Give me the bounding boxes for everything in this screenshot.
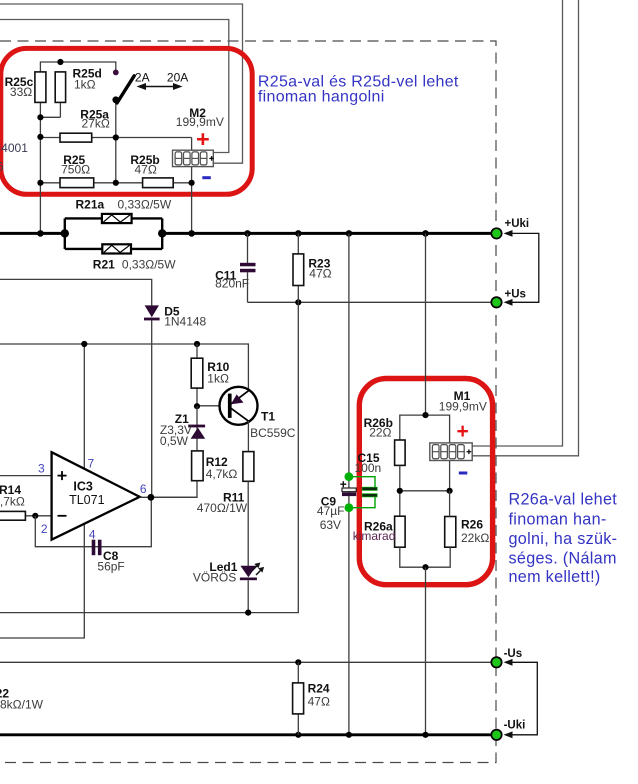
resistor R12 [192, 451, 204, 481]
svg-text:820nF: 820nF [215, 276, 249, 290]
svg-text:2: 2 [41, 522, 48, 536]
svg-text:0,33Ω/5W: 0,33Ω/5W [122, 257, 176, 271]
wire +Uki bus left segment [0, 232, 65, 235]
resistor R26 [445, 517, 456, 548]
wire C9 between terminals [348, 477, 350, 508]
terminal -Us/-Uki bracket with arrows [504, 659, 538, 738]
wire R21 frame right vertical [161, 218, 163, 249]
svg-text:47µF: 47µF [317, 504, 345, 518]
wire M1 display bottom terminal [449, 461, 451, 491]
wire mid node row [400, 490, 450, 492]
capacitor C9 47uF electrolytic [342, 488, 356, 496]
svg-text:47Ω: 47Ω [309, 267, 331, 281]
wire Led1 cathode to feedback line [247, 580, 249, 612]
node bus-left rail junction [37, 230, 44, 237]
svg-text:BC559C: BC559C [250, 426, 296, 440]
resistor R10 [191, 358, 203, 388]
wire T1 base wire [197, 405, 228, 407]
svg-text:470Ω/1W: 470Ω/1W [197, 501, 248, 515]
switch open contact (purple) [113, 70, 119, 76]
svg-text:IC3: IC3 [73, 479, 93, 493]
node -Us R24 junction [295, 659, 301, 665]
wire R26b bottom to mid node [399, 465, 401, 516]
svg-text:+: + [457, 420, 469, 443]
svg-text:1kΩ: 1kΩ [74, 77, 96, 91]
resistor R25 [60, 178, 94, 188]
svg-text:1kΩ: 1kΩ [207, 372, 229, 386]
svg-text:100n: 100n [355, 461, 382, 475]
wire op-amp pin7 supply [83, 344, 85, 470]
node pin2-feedback junction [32, 513, 38, 519]
wire M1 sense to top edge inner [472, 0, 562, 446]
red annotation box around R26 network and M1 [359, 379, 492, 585]
svg-text:22Ω: 22Ω [369, 425, 391, 439]
node rail-R25 junction [37, 180, 43, 186]
resistor R11 [243, 452, 254, 482]
wire pin6 output [140, 496, 197, 498]
wire M1 sense to top edge outer [472, 0, 578, 456]
wire R12 bottom lead to output [151, 451, 197, 497]
svg-text:VÖRÖS: VÖRÖS [193, 571, 236, 585]
power resistor R21 [102, 244, 131, 253]
svg-text:séges. (Nálam: séges. (Nálam [509, 549, 617, 567]
svg-text:2A: 2A [135, 70, 150, 84]
capacitor C15 100n (green) [349, 477, 377, 508]
wire R21 bottom path [65, 248, 162, 250]
svg-text:-Uki: -Uki [504, 719, 526, 731]
wire +Us net down to LED line [0, 302, 298, 612]
op-amp plus input mark [58, 471, 67, 480]
node M1 bottom junction [422, 564, 428, 570]
C9 polarity plus mark [340, 481, 346, 487]
zener diode Z1 [188, 425, 205, 439]
wire V+ line to T1 emitter [0, 344, 248, 391]
svg-text:0,5W: 0,5W [160, 434, 189, 448]
svg-text:R21a: R21a [76, 197, 105, 211]
svg-text:R26: R26 [461, 517, 483, 531]
node R26b-R26a junction [397, 488, 403, 494]
resistor R25c [35, 72, 46, 103]
svg-text:1N4148: 1N4148 [164, 315, 206, 329]
terminal +Uki bracket with arrows [504, 230, 539, 306]
wire pin3 from left edge [0, 475, 52, 477]
wire -Uki rail [0, 733, 497, 736]
terminal +Us (green) [491, 297, 501, 307]
range arrow between 2A and 20A [144, 86, 175, 88]
node R25-R25b junction [113, 180, 119, 186]
wire D5 anode from left edge [0, 279, 152, 305]
wire R21 frame left vertical [64, 218, 66, 249]
svg-text:nem kellett!): nem kellett!) [509, 568, 601, 586]
M2 minus terminal mark (blue) [202, 176, 211, 179]
svg-text:56pF: 56pF [97, 559, 124, 573]
svg-text:47Ω: 47Ω [135, 162, 157, 176]
wire R25d bottom lead [59, 102, 61, 117]
resistor R25b [143, 178, 174, 188]
wire R10 leads [196, 344, 198, 406]
svg-text:3: 3 [38, 462, 45, 476]
wire M2 display top terminal [191, 138, 193, 151]
node bus-M2 junction [188, 230, 195, 237]
svg-text:0,33Ω/5W: 0,33Ω/5W [118, 197, 172, 211]
node R25b-M2 junction [189, 180, 195, 186]
node bus-R23 junction [295, 230, 302, 237]
switch S1 lever 2A/20A [117, 76, 134, 103]
resistor R14 [0, 511, 25, 520]
svg-text:+Uki: +Uki [505, 218, 530, 230]
wire R24 leads [297, 662, 299, 735]
node bus-C9 junction [346, 230, 353, 237]
node bus-R21 left junction [61, 229, 69, 237]
node +Us R23 junction [295, 299, 301, 305]
terminal +Uki (green) [491, 228, 501, 238]
resistor R25a [60, 133, 92, 142]
svg-text:63V: 63V [320, 518, 341, 532]
wire switch pivot down to R25a node [115, 100, 117, 183]
annotation text about R26a (blue) [509, 491, 618, 587]
red annotation box around R25 network and M2 [1, 48, 252, 194]
wire R26 top lead [449, 491, 451, 517]
svg-text:4: 4 [89, 527, 96, 541]
wire Z1 leads [196, 406, 198, 451]
node rail-R25a junction [37, 134, 43, 140]
wire C9 rail from bus [348, 233, 350, 476]
wire left rail x40 [39, 102, 41, 233]
wire M2 sense + to top edge [0, 4, 243, 163]
node -Uki R24 junction [295, 732, 301, 738]
resistor R25d [55, 72, 65, 103]
wire pin4 to bottom left [0, 524, 84, 639]
wire D5 cathode down to op-amp output [151, 318, 153, 498]
switch pivot node [112, 96, 119, 103]
svg-text:T1: T1 [261, 410, 275, 424]
wire R23 leads [297, 233, 299, 302]
wire C9 rail to -Uki [348, 508, 350, 735]
svg-text:N4001: N4001 [0, 141, 28, 155]
node bus-C11 junction [244, 230, 251, 237]
svg-text:199,9mV: 199,9mV [439, 399, 487, 413]
terminal -Uki (green) [491, 730, 501, 740]
node Led1-feedback junction [245, 610, 251, 616]
node R25c R25d bottom junction [37, 114, 43, 120]
capacitor C11 [240, 263, 256, 273]
meter M2 display module (8888+) [173, 150, 214, 166]
svg-text:+Us: +Us [505, 289, 526, 301]
M1 minus terminal mark (blue) [459, 472, 468, 475]
resistor R23 [293, 254, 304, 286]
annotation text about R25a/R25d (blue) [258, 73, 459, 105]
wire R25d bottom to left rail [40, 116, 60, 118]
wire R25a row y137.5 [40, 137, 191, 139]
node switch-R25a junction [113, 134, 119, 140]
svg-text:4,7kΩ: 4,7kΩ [0, 494, 25, 508]
node pin7 junction [81, 341, 87, 347]
svg-text:33Ω: 33Ω [10, 85, 32, 99]
power resistor R21a [102, 214, 132, 223]
svg-text:R21: R21 [93, 257, 115, 271]
node base-R10-Z1 junction [194, 403, 200, 409]
wire R14 to pin2 [25, 515, 51, 517]
svg-text:golni, ha szük-: golni, ha szük- [509, 530, 618, 548]
capacitor C8 [92, 540, 102, 556]
svg-text:750Ω: 750Ω [61, 162, 90, 176]
svg-text:finoman hangolni: finoman hangolni [258, 89, 385, 106]
svg-text:+: + [196, 126, 210, 152]
node R10 top junction [194, 341, 200, 347]
wire R21a top path [65, 217, 162, 219]
svg-text:-Us: -Us [504, 648, 523, 660]
op-amp minus input mark [58, 515, 67, 517]
svg-text:TL071: TL071 [69, 493, 104, 507]
svg-text:6,8kΩ/1W: 6,8kΩ/1W [0, 697, 44, 711]
node -Uki M1 junction [422, 732, 428, 738]
svg-text:47Ω: 47Ω [308, 695, 330, 709]
meter M1 display module (8888+) [430, 443, 472, 461]
node pin6 output junction [148, 494, 155, 501]
terminal -Us (green) [491, 657, 501, 667]
node C9 top terminal (green) [345, 472, 354, 481]
resistor R24 [293, 683, 304, 714]
resistor R26b [395, 440, 406, 465]
wire R11 to Led1 [247, 481, 249, 566]
svg-text:6: 6 [140, 482, 147, 496]
svg-text:kimarad: kimarad [353, 529, 396, 543]
node -Uki C9 junction [346, 732, 352, 738]
node C9 bottom terminal (green) [345, 503, 354, 512]
LED Led1 (red) [240, 563, 264, 581]
node R25d top junction [57, 59, 63, 65]
svg-text:7: 7 [88, 457, 95, 471]
svg-text:finoman han-: finoman han- [509, 510, 607, 528]
wire M1 rail from bus [425, 233, 427, 415]
wire M2 sense - to top edge [0, 20, 229, 153]
wire R25 row y182.8 [40, 182, 191, 184]
wire feedback via C8 [35, 497, 151, 546]
wire M1 top node row [400, 415, 450, 443]
wire M1 bottom to -Uki [425, 567, 427, 735]
node M1 top junction [422, 412, 428, 418]
wire +Uki bus right segment [162, 232, 496, 235]
wire T1 collector to R11 [247, 421, 249, 452]
node display-R26 junction [447, 488, 453, 494]
wire M1 bottom node row [400, 547, 450, 567]
wire node A top of R25c R25d to switch contact [40, 62, 115, 72]
op-amp IC3 TL071 [52, 452, 140, 540]
diode D5 [144, 305, 160, 320]
transistor T1 BC559C (PNP) [220, 387, 258, 425]
wire C11 bottom lead [247, 272, 249, 302]
node bus-M1 junction [422, 230, 429, 237]
wire M2 display bottom terminal to bus [191, 167, 193, 234]
svg-text:R26a-val lehet: R26a-val lehet [509, 491, 618, 509]
svg-text:22kΩ: 22kΩ [461, 531, 489, 545]
resistor R26a [395, 516, 406, 547]
svg-text:4,7kΩ: 4,7kΩ [206, 467, 238, 481]
svg-text:R24: R24 [308, 681, 330, 695]
wire -Us rail [0, 661, 497, 663]
wire +Us line [248, 301, 497, 303]
svg-text:27kΩ: 27kΩ [82, 117, 110, 131]
node bus-R21 right junction [158, 229, 166, 237]
wire C11 top lead [247, 233, 249, 263]
dashed module border [0, 41, 496, 763]
svg-text:20A: 20A [167, 70, 188, 84]
svg-text:6: 6 [0, 159, 4, 173]
